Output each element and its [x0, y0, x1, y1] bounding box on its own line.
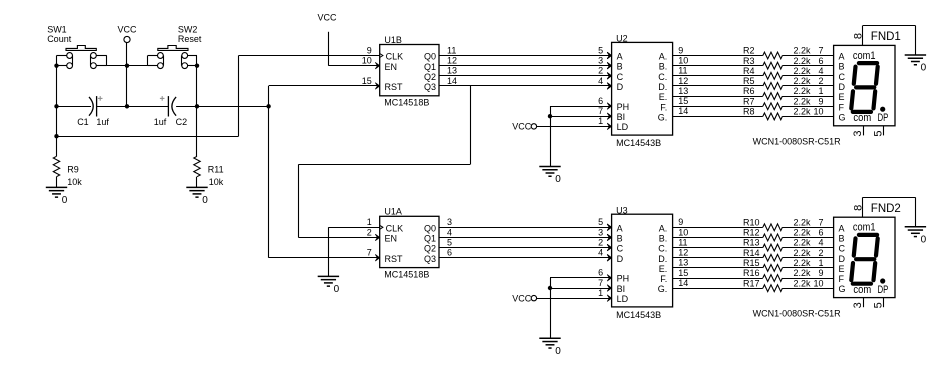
svg-text:A: A: [617, 52, 623, 62]
svg-text:com1: com1: [853, 222, 876, 234]
svg-text:2.2k: 2.2k: [794, 248, 812, 258]
svg-text:3: 3: [447, 217, 452, 227]
IC U1B MC14518B: [380, 35, 439, 108]
svg-text:R12: R12: [743, 228, 760, 238]
svg-text:13: 13: [678, 86, 688, 96]
svg-text:6: 6: [598, 96, 603, 106]
svg-text:6: 6: [818, 228, 823, 238]
node junction U2 BI: [548, 114, 552, 118]
svg-text:5: 5: [447, 237, 452, 247]
ground FND2: [905, 227, 927, 246]
svg-text:E: E: [839, 92, 845, 102]
wire cap row segment 3: [176, 106, 269, 108]
wire U3 PH pin 6: [550, 277, 612, 279]
svg-text:14: 14: [678, 278, 688, 288]
svg-text:1: 1: [818, 258, 823, 268]
svg-text:RST: RST: [385, 82, 404, 92]
svg-text:A.: A.: [659, 223, 668, 233]
svg-text:G: G: [839, 284, 846, 294]
ground FND1: [905, 55, 927, 74]
svg-text:9: 9: [818, 96, 823, 106]
svg-text:3: 3: [598, 227, 603, 237]
svg-text:7: 7: [818, 217, 823, 227]
svg-text:F: F: [839, 102, 845, 112]
svg-text:A: A: [617, 223, 623, 233]
node junction cap row sw2: [195, 104, 199, 108]
svg-text:10k: 10k: [67, 177, 82, 187]
node junction cap row left: [54, 104, 58, 108]
svg-text:15: 15: [678, 96, 688, 106]
resistor R12 2.2k: [673, 228, 834, 241]
svg-text:VCC: VCC: [512, 293, 532, 303]
svg-text:G.: G.: [658, 112, 668, 122]
power VCC terminal U3 LD: [512, 293, 536, 303]
svg-text:F: F: [839, 274, 845, 284]
label FND2 and pin 8: [853, 203, 901, 215]
svg-text:B.: B.: [659, 62, 668, 72]
svg-text:1: 1: [818, 86, 823, 96]
svg-text:E: E: [839, 264, 845, 274]
ground R9: [46, 187, 68, 206]
wire U2 BI pin 7: [550, 116, 612, 118]
svg-text:7: 7: [598, 278, 603, 288]
svg-text:Q2: Q2: [424, 244, 436, 254]
display FND1 bottom pins 3 5: [852, 126, 884, 137]
resistor R15 2.2k: [673, 258, 834, 271]
svg-text:8: 8: [853, 33, 865, 39]
svg-text:RST: RST: [385, 254, 404, 264]
svg-text:B: B: [839, 62, 845, 72]
resistor R10 2.2k: [673, 217, 834, 230]
svg-text:1uf: 1uf: [154, 117, 167, 127]
svg-text:SW1: SW1: [47, 25, 67, 35]
svg-text:D: D: [617, 82, 624, 92]
svg-text:Q0: Q0: [424, 52, 436, 62]
resistor R16 2.2k: [673, 268, 834, 281]
svg-text:C1: C1: [77, 117, 89, 127]
svg-text:0: 0: [202, 195, 208, 206]
capacitor C1 1uf: [77, 96, 109, 127]
svg-text:2.2k: 2.2k: [794, 107, 812, 117]
svg-text:0: 0: [334, 284, 340, 295]
svg-text:B: B: [617, 62, 623, 72]
svg-text:0: 0: [921, 63, 927, 74]
svg-text:2.2k: 2.2k: [794, 96, 812, 106]
svg-text:4: 4: [598, 76, 603, 86]
resistor R4 2.2k: [673, 66, 834, 79]
wire vertical to CLK: [238, 56, 240, 137]
wire U1B RST pin 15: [269, 83, 380, 90]
svg-text:12: 12: [678, 76, 688, 86]
svg-text:7: 7: [818, 46, 823, 56]
svg-text:WCN1-0080SR-C51R: WCN1-0080SR-C51R: [753, 137, 842, 147]
svg-text:FND1: FND1: [871, 31, 901, 43]
svg-text:MC14518B: MC14518B: [384, 270, 429, 280]
svg-text:5: 5: [598, 217, 603, 227]
svg-text:com1: com1: [853, 50, 876, 62]
capacitor C2 1uf: [154, 96, 187, 127]
svg-text:D: D: [839, 82, 846, 92]
svg-text:10k: 10k: [209, 177, 224, 187]
display FND1 pin names: [839, 50, 889, 124]
wire U3 blanking vertical to ground: [550, 278, 552, 338]
svg-text:0: 0: [62, 195, 68, 206]
svg-text:D: D: [839, 254, 846, 264]
node junction SW1-left: [54, 63, 58, 67]
resistor R6 2.2k: [673, 86, 834, 99]
svg-text:D.: D.: [658, 82, 667, 92]
svg-text:A: A: [839, 223, 845, 233]
svg-text:3: 3: [852, 302, 864, 308]
svg-text:6: 6: [598, 268, 603, 278]
IC U3 MC14543B: [607, 205, 672, 320]
svg-text:6: 6: [818, 56, 823, 66]
svg-text:2.2k: 2.2k: [794, 46, 812, 56]
svg-text:FND2: FND2: [871, 203, 901, 215]
svg-text:R3: R3: [743, 56, 755, 66]
switch SW1 label: [47, 25, 72, 45]
svg-text:2: 2: [598, 66, 603, 76]
wire cap row segment 2: [97, 106, 169, 108]
wire FND2 common to ground: [834, 197, 916, 297]
IC U1A MC14518B: [380, 207, 439, 280]
wire U1A Q1 to U3 B: [439, 234, 612, 241]
svg-text:A.: A.: [659, 52, 668, 62]
display FND2 bottom pins 3 5: [852, 298, 884, 309]
svg-text:R9: R9: [67, 165, 79, 175]
svg-text:B: B: [839, 233, 845, 243]
svg-text:B: B: [617, 233, 623, 243]
svg-text:EN: EN: [385, 62, 398, 72]
svg-text:BI: BI: [617, 284, 626, 294]
resistor R13 2.2k: [673, 238, 834, 251]
svg-text:4: 4: [447, 227, 452, 237]
svg-text:7: 7: [367, 248, 372, 258]
svg-text:CLK: CLK: [386, 223, 404, 233]
display FND1 segments: [851, 63, 877, 112]
svg-text:9: 9: [367, 45, 372, 55]
svg-text:MC14518B: MC14518B: [384, 98, 429, 108]
svg-text:R10: R10: [743, 217, 760, 227]
wire U2 blanking vertical to ground: [550, 106, 552, 166]
svg-text:2.2k: 2.2k: [794, 66, 812, 76]
wire RST vertical: [268, 86, 270, 258]
svg-text:2.2k: 2.2k: [794, 86, 812, 96]
svg-text:Q2: Q2: [424, 72, 436, 82]
svg-text:3: 3: [598, 55, 603, 65]
svg-text:D: D: [617, 254, 624, 264]
svg-text:R7: R7: [743, 96, 755, 106]
svg-text:9: 9: [678, 217, 683, 227]
wire cap row segment 1: [57, 106, 92, 108]
svg-text:E.: E.: [659, 92, 668, 102]
ground R11: [186, 187, 208, 206]
resistor R3 2.2k: [673, 56, 834, 69]
svg-text:4: 4: [598, 248, 603, 258]
wire U1B Q1 to U2 B: [439, 62, 612, 69]
svg-text:F.: F.: [660, 102, 667, 112]
svg-text:R15: R15: [743, 258, 760, 268]
resistor R5 2.2k: [673, 76, 834, 89]
svg-text:C.: C.: [658, 244, 667, 254]
display FND2 segments: [851, 235, 877, 284]
node junction row2 left: [54, 134, 58, 138]
svg-text:MC14543B: MC14543B: [616, 310, 661, 320]
svg-text:C: C: [617, 72, 624, 82]
svg-text:Q1: Q1: [424, 62, 436, 72]
resistor R11 10k: [194, 156, 224, 187]
svg-text:R14: R14: [743, 248, 760, 258]
svg-text:13: 13: [678, 258, 688, 268]
wire U3 LD pin 1: [537, 298, 612, 300]
svg-text:R2: R2: [743, 46, 755, 56]
svg-text:1: 1: [598, 288, 603, 298]
svg-text:5: 5: [872, 130, 884, 136]
svg-text:U1B: U1B: [384, 35, 402, 45]
node junction cap row right: [266, 104, 270, 108]
svg-text:B.: B.: [659, 233, 668, 243]
svg-text:VCC: VCC: [118, 25, 138, 35]
svg-text:10: 10: [813, 107, 823, 117]
svg-text:R8: R8: [743, 107, 755, 117]
svg-text:10: 10: [362, 55, 372, 65]
svg-text:11: 11: [678, 237, 687, 247]
svg-text:6: 6: [447, 248, 452, 258]
svg-text:8: 8: [853, 205, 865, 211]
power VCC U1B: [318, 12, 338, 65]
svg-text:14: 14: [678, 106, 688, 116]
resistor R9 10k: [53, 156, 82, 187]
svg-text:Q0: Q0: [424, 223, 436, 233]
svg-text:5: 5: [598, 45, 603, 55]
wire cascade Q3 to U1A EN pin 2: [298, 86, 470, 241]
resistor R7 2.2k: [673, 96, 834, 109]
wire U1B Q2 to U2 C: [439, 73, 612, 80]
svg-text:15: 15: [678, 268, 688, 278]
svg-text:LD: LD: [617, 294, 629, 304]
svg-text:Q1: Q1: [424, 234, 436, 244]
wire U1B CLK pin 9: [239, 55, 380, 57]
wire U2 LD pin 1: [537, 126, 612, 128]
svg-text:C2: C2: [176, 117, 188, 127]
svg-text:2: 2: [598, 237, 603, 247]
svg-text:2: 2: [367, 227, 372, 237]
switch SW2: [148, 46, 198, 69]
svg-text:4: 4: [818, 238, 823, 248]
svg-text:0: 0: [555, 346, 561, 357]
ground U2: [539, 167, 561, 186]
wire U1A RST pin 7: [269, 254, 380, 261]
svg-text:R11: R11: [208, 165, 224, 175]
node junction cap row vcc: [125, 104, 129, 108]
resistor R8 2.2k: [673, 107, 834, 120]
svg-text:12: 12: [678, 248, 688, 258]
svg-text:G: G: [839, 112, 846, 122]
wire SW1-right to SW2-left through VCC: [107, 65, 148, 67]
wire U1B EN pin 10: [328, 62, 379, 69]
power VCC terminal top: [118, 25, 138, 43]
resistor R2 2.2k: [673, 46, 834, 59]
svg-text:3: 3: [852, 130, 864, 136]
svg-text:12: 12: [447, 55, 457, 65]
svg-text:11: 11: [447, 45, 456, 55]
svg-text:F.: F.: [660, 274, 667, 284]
svg-text:PH: PH: [617, 102, 630, 112]
display FND2 pin names: [839, 222, 889, 296]
ground U1A CLK: [318, 276, 340, 295]
svg-text:SW2: SW2: [178, 25, 198, 35]
wire U1A Q2 to U3 C: [439, 244, 612, 251]
wire U1A Q0 to U3 A: [439, 224, 612, 231]
wire SW2 right bracket down to R11: [196, 56, 198, 157]
ground U3: [539, 338, 561, 357]
svg-text:1: 1: [598, 116, 603, 126]
svg-text:R5: R5: [743, 76, 755, 86]
svg-text:2.2k: 2.2k: [794, 238, 812, 248]
svg-text:DP: DP: [878, 112, 889, 124]
svg-text:Reset: Reset: [178, 34, 202, 44]
svg-text:9: 9: [678, 45, 683, 55]
svg-text:15: 15: [362, 76, 372, 86]
svg-text:R6: R6: [743, 86, 755, 96]
wire VCC vertical: [126, 43, 128, 107]
svg-text:2: 2: [818, 76, 823, 86]
svg-text:2.2k: 2.2k: [794, 76, 812, 86]
label FND1 and pin 8: [853, 31, 901, 43]
svg-text:2.2k: 2.2k: [794, 56, 812, 66]
resistor R17 2.2k: [673, 278, 834, 291]
wire U2 PH pin 6: [550, 106, 612, 108]
svg-text:LD: LD: [617, 122, 629, 132]
svg-text:C: C: [839, 72, 846, 82]
svg-text:R17: R17: [743, 278, 760, 288]
svg-text:10: 10: [678, 227, 688, 237]
svg-text:EN: EN: [385, 234, 398, 244]
svg-text:R16: R16: [743, 268, 760, 278]
svg-text:2.2k: 2.2k: [794, 268, 812, 278]
IC U2 MC14543B: [607, 34, 672, 149]
svg-text:2.2k: 2.2k: [794, 217, 812, 227]
svg-text:DP: DP: [878, 284, 889, 296]
resistor R14 2.2k: [673, 248, 834, 261]
svg-text:U1A: U1A: [384, 207, 402, 217]
svg-text:PH: PH: [617, 274, 630, 284]
svg-text:2: 2: [818, 248, 823, 258]
svg-text:WCN1-0080SR-C51R: WCN1-0080SR-C51R: [753, 308, 842, 318]
wire U3 BI pin 7: [550, 288, 612, 290]
switch SW2 label: [178, 25, 202, 45]
svg-text:CLK: CLK: [386, 52, 404, 62]
wire row2 horizontal: [57, 136, 239, 138]
svg-text:BI: BI: [617, 112, 626, 122]
wire FND1 common to ground: [834, 26, 916, 126]
svg-text:13: 13: [447, 66, 457, 76]
svg-text:14: 14: [447, 76, 457, 86]
svg-text:2.2k: 2.2k: [794, 258, 812, 268]
svg-text:Count: Count: [47, 34, 72, 44]
svg-text:Q3: Q3: [424, 254, 436, 264]
svg-text:Q3: Q3: [424, 82, 436, 92]
svg-text:1uf: 1uf: [96, 117, 109, 127]
wire U1A CLK pin 1 to ground: [328, 227, 379, 276]
node junction U3 BI: [548, 286, 552, 290]
svg-text:9: 9: [818, 268, 823, 278]
svg-text:C: C: [839, 244, 846, 254]
svg-text:R4: R4: [743, 66, 755, 76]
power VCC terminal U2 LD: [512, 122, 536, 132]
svg-text:7: 7: [598, 106, 603, 116]
svg-text:5: 5: [872, 302, 884, 308]
svg-text:10: 10: [813, 278, 823, 288]
svg-text:VCC: VCC: [318, 12, 338, 22]
svg-text:C.: C.: [658, 72, 667, 82]
wire U1B Q0 to U2 A: [439, 52, 612, 59]
switch SW1: [57, 46, 107, 69]
svg-text:4: 4: [818, 66, 823, 76]
svg-text:11: 11: [678, 66, 687, 76]
node junction VCC row: [125, 63, 129, 67]
wire U1B Q3 to U2 D: [439, 83, 612, 90]
svg-text:1: 1: [367, 217, 372, 227]
svg-text:2.2k: 2.2k: [794, 228, 812, 238]
svg-text:E.: E.: [659, 264, 668, 274]
svg-text:G.: G.: [658, 284, 668, 294]
svg-text:10: 10: [678, 55, 688, 65]
wire U1A Q3 to U3 D: [439, 254, 612, 261]
svg-text:A: A: [839, 52, 845, 62]
svg-text:MC14543B: MC14543B: [616, 138, 661, 148]
svg-text:VCC: VCC: [512, 122, 532, 132]
svg-text:0: 0: [921, 235, 927, 246]
node junction SW2-right: [195, 63, 199, 67]
svg-text:C: C: [617, 244, 624, 254]
svg-text:0: 0: [555, 174, 561, 185]
svg-text:2.2k: 2.2k: [794, 278, 812, 288]
svg-text:R13: R13: [743, 238, 760, 248]
svg-text:D.: D.: [658, 254, 667, 264]
wire SW1 left bracket / left vertical: [56, 56, 58, 157]
